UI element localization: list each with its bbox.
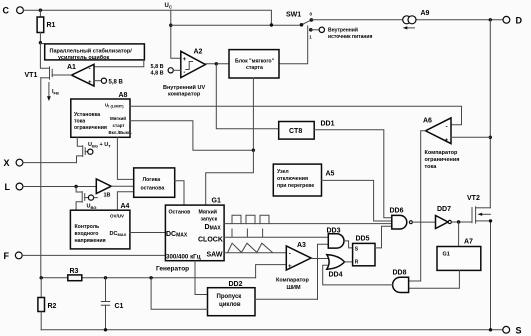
svg-text:5,8 В: 5,8 В (151, 64, 164, 70)
svg-text:DD4: DD4 (329, 272, 343, 279)
svg-text:A6: A6 (423, 118, 432, 125)
box soft start block (229, 50, 279, 78)
svg-text:+: + (183, 57, 187, 63)
wire F to generator G1 (22, 254, 165, 256)
svg-text:D: D (516, 16, 523, 26)
wire DD2/DD3 riser (318, 244, 329, 299)
svg-text:DD2: DD2 (229, 281, 243, 288)
svg-text:тока: тока (74, 119, 85, 125)
op-amp A1 (72, 64, 95, 86)
counter CT8 / DD1 (279, 122, 315, 140)
svg-text:входного: входного (75, 231, 99, 237)
capacitor C1 (105, 278, 107, 302)
inverter DD7 (436, 216, 449, 229)
svg-text:UBG + UT: UBG + UT (88, 142, 111, 149)
svg-text:-: - (446, 124, 448, 130)
svg-text:при перегреве: при перегреве (277, 183, 314, 189)
node junction source bus on S rail (489, 328, 492, 331)
node junction on Uc rail at R1 (39, 9, 42, 12)
svg-text:A5: A5 (326, 171, 335, 178)
svg-text:Логика: Логика (143, 177, 161, 183)
svg-text:1: 1 (309, 35, 312, 40)
node junction VT2 source (489, 219, 492, 222)
svg-text:DD5: DD5 (356, 236, 370, 243)
wire A2 output down to counter CT8 input (216, 64, 278, 129)
gate DD6 (392, 215, 407, 229)
svg-text:компаратор: компаратор (168, 92, 201, 98)
node junction D rail to drain bus (489, 18, 492, 21)
svg-text:+: + (88, 80, 92, 86)
wire A2 output to soft start block (205, 63, 229, 65)
wire node to DD2 lower input (151, 278, 207, 310)
node junction Uc tap to SW1 wire (169, 24, 172, 27)
waveform Dmax square pulses (232, 215, 269, 223)
svg-text:источник питания: источник питания (328, 34, 372, 40)
node junction C1 top (104, 276, 107, 279)
svg-text:старт: старт (113, 123, 126, 128)
wire A1 inverting input to box corner (94, 60, 144, 67)
wire DD8 output to DD4 input 2 (323, 265, 393, 285)
svg-text:A1: A1 (67, 64, 76, 71)
svg-text:G1: G1 (212, 198, 221, 205)
svg-text:Контроль: Контроль (75, 224, 100, 230)
current source A9 (403, 16, 411, 24)
gate DD4 (327, 255, 345, 270)
svg-text:300/400 кГц: 300/400 кГц (166, 254, 201, 261)
svg-text:UBG: UBG (87, 204, 97, 211)
svg-text:F: F (4, 251, 10, 261)
node junction C1 bottom (104, 328, 107, 331)
svg-text:SW1: SW1 (286, 12, 301, 19)
wire A5 output to DD6 input 2 (322, 180, 393, 221)
waveform sawtooth (228, 243, 273, 252)
node junction DD2 branch (149, 276, 152, 279)
gate DD8 (393, 277, 409, 292)
block G1 generator (165, 205, 224, 261)
svg-text:DMAX: DMAX (205, 224, 222, 232)
wire A7 bottom to DD8 input 2 (409, 270, 460, 288)
svg-text:циклов: циклов (219, 302, 241, 308)
wire CT8 output to DD6 input 1 (314, 130, 392, 218)
flip-flop DD5 (353, 243, 375, 265)
svg-text:R: R (355, 260, 359, 266)
reference 5,8 V at A1 + input (94, 80, 101, 82)
svg-text:DCMAX: DCMAX (110, 231, 127, 237)
svg-text:SAW: SAW (207, 252, 223, 259)
svg-text:ШИМ: ШИМ (287, 285, 301, 291)
comparator A3 PWM (286, 246, 311, 270)
transistor Ubg current source on L pin (76, 187, 82, 193)
svg-text:C1: C1 (115, 303, 124, 310)
wire Uc rail from C to SW1 drop (24, 10, 272, 25)
node junction DD7 output (457, 220, 460, 223)
svg-text:останова: останова (141, 186, 165, 192)
svg-text:Компаратор: Компаратор (425, 150, 458, 156)
wire soft start block bottom drop (252, 78, 254, 150)
svg-text:+: + (288, 264, 292, 270)
svg-text:Генератор: Генератор (156, 266, 189, 273)
wire DD6 output to DD7 (412, 221, 435, 223)
resistor R2 (40, 278, 42, 298)
terminal X (16, 159, 23, 166)
svg-text:R2: R2 (48, 303, 57, 310)
svg-text:ограничения: ограничения (425, 157, 460, 163)
svg-text:CT8: CT8 (289, 128, 302, 135)
svg-text:Компаратор: Компаратор (276, 278, 309, 284)
terminal S (503, 326, 510, 333)
wire soft start from A8 to G1 (130, 121, 253, 151)
svg-text:C: C (3, 6, 10, 16)
svg-text:Мягкий: Мягкий (110, 115, 126, 121)
wire stop logic output to G1 (175, 181, 184, 205)
svg-text:Мягкий: Мягкий (199, 209, 217, 216)
wire X to Ubg+Ut transistor (23, 162, 77, 164)
svg-text:A2: A2 (194, 49, 203, 56)
svg-text:-: - (289, 251, 291, 257)
block A5 thermal shutdown (273, 164, 321, 196)
svg-text:Пропуск: Пропуск (217, 294, 242, 300)
wire drain bus from D rail to VT2 (489, 20, 491, 208)
svg-text:1В: 1В (104, 193, 111, 199)
node junction R2 top (40, 276, 43, 279)
wire to SW1 pivot (171, 24, 302, 26)
wire saw from G1 to PWM comparator (224, 252, 286, 254)
wire L to buffer (23, 186, 96, 188)
transistor Ubg+Ut with X pin (77, 137, 82, 146)
svg-text:старта: старта (246, 65, 263, 71)
svg-text:4,8 В: 4,8 В (151, 71, 164, 77)
node junction A6 + input on drain bus (489, 136, 492, 139)
svg-text:DD7: DD7 (437, 206, 451, 213)
switch contact 1 to internal supply (309, 28, 313, 32)
svg-text:DD3: DD3 (327, 228, 341, 235)
wire feedback node to A3 + input (256, 265, 287, 278)
block A7 gate driver (437, 247, 481, 271)
wire Ui limit from A8 to A6 inverting input (130, 106, 462, 124)
wire A3 output to DD4 (311, 258, 328, 260)
svg-text:DD1: DD1 (321, 121, 335, 128)
svg-text:Параллельный стабилизатор/: Параллельный стабилизатор/ (50, 48, 133, 55)
terminal F (15, 252, 22, 259)
node junction on L wire (74, 185, 77, 188)
svg-text:Блок "мягкого": Блок "мягкого" (235, 58, 275, 64)
svg-text:UI (LIMIT): UI (LIMIT) (105, 103, 124, 109)
svg-text:A3: A3 (297, 242, 306, 249)
wire DD7 output down to A7 (458, 222, 460, 247)
resistor R3 (68, 275, 82, 281)
svg-text:-: - (183, 70, 185, 76)
terminal C (17, 7, 24, 14)
wire DD5 output to DD6 input 4 (375, 226, 392, 248)
wire DD4 output to DD5 R (345, 261, 353, 263)
wire DD2 right to riser (255, 298, 318, 300)
svg-text:отключения: отключения (277, 176, 308, 182)
svg-text:A8: A8 (119, 92, 128, 99)
wire A8 enable down to stop logic (117, 137, 133, 179)
svg-text:VT2: VT2 (467, 195, 480, 202)
svg-text:DCMAX: DCMAX (166, 231, 188, 239)
svg-text:усилитель ошибок: усилитель ошибок (58, 54, 109, 61)
wire Dmax from G1 to DD6 (224, 223, 392, 225)
node junction A2 output (215, 62, 218, 65)
terminal L (16, 183, 23, 190)
svg-text:A9: A9 (421, 10, 430, 17)
wire source bus from VT2 to S rail (490, 221, 492, 330)
svg-text:CLOCK: CLOCK (198, 237, 223, 244)
svg-text:напряжения: напряжения (75, 238, 106, 244)
wire Uc tap down to A2 + input (171, 10, 181, 58)
comparator A2 internal UV (181, 51, 206, 77)
svg-text:Внутренний UV: Внутренний UV (163, 84, 205, 91)
svg-text:A7: A7 (464, 239, 473, 246)
svg-text:UC: UC (165, 3, 173, 9)
terminal D (503, 16, 510, 23)
node junction soft start net (252, 149, 255, 152)
svg-text:G1: G1 (443, 252, 450, 258)
node junction at x=271 (270, 23, 273, 26)
svg-text:Останов: Останов (169, 210, 191, 216)
block A8 current limit set (71, 99, 130, 137)
svg-text:L: L (5, 182, 11, 192)
wire D rail (311, 19, 503, 21)
svg-text:5,8 В: 5,8 В (109, 79, 124, 85)
node junction at VT1 drain / stabilizer box (39, 41, 42, 44)
gate DD3 (328, 234, 344, 248)
svg-text:R3: R3 (70, 268, 79, 275)
wire contact 1 down to soft start feed (279, 26, 308, 64)
wire A6 output down to DD8 input 1 (409, 131, 426, 281)
box parallel stabilizer / error amplifier (45, 44, 145, 60)
wire DD7 output to VT2 gate (451, 221, 472, 223)
wire feedback line with R3 (41, 277, 255, 279)
buffer comparator 1V on L pin (96, 179, 111, 194)
block A4 input voltage monitor (70, 210, 129, 249)
svg-text:IFB: IFB (52, 89, 59, 96)
svg-text:VT1: VT1 (25, 72, 38, 79)
resistor R1 (39, 10, 41, 17)
svg-text:Вкл./Выкл.: Вкл./Выкл. (109, 130, 132, 135)
wire DD3 output to DD5 S (345, 241, 353, 248)
svg-text:Установка: Установка (74, 112, 100, 118)
wire A4 DCmax to G1 (130, 232, 166, 234)
current IFB arrow (48, 83, 50, 97)
svg-text:-: - (89, 67, 91, 73)
comparator A6 current limit (426, 118, 452, 144)
wire VT1 source down left column (40, 78, 42, 278)
svg-text:+: + (445, 138, 449, 144)
svg-text:Внутренний: Внутренний (328, 27, 358, 34)
box stop logic (134, 168, 175, 197)
waveform clock pulses (232, 229, 263, 237)
wire G1 bottom to DD2 (195, 261, 208, 295)
wire bottom S rail (41, 329, 503, 331)
wire clock from G1 to DD3 (224, 236, 328, 238)
wire A4 OV/UV up to stop logic (117, 192, 133, 210)
svg-text:OV/UV: OV/UV (110, 214, 124, 219)
svg-text:DD6: DD6 (390, 208, 404, 215)
block DD2 cycle skip (208, 288, 256, 316)
svg-text:DD8: DD8 (393, 270, 407, 277)
svg-text:0: 0 (310, 12, 313, 17)
svg-text:Узел: Узел (277, 169, 289, 175)
wire soft start net down to G1 input (206, 150, 254, 205)
svg-text:тока: тока (425, 164, 438, 170)
svg-text:X: X (4, 158, 10, 168)
svg-text:A4: A4 (121, 203, 130, 210)
svg-text:запуск: запуск (201, 217, 218, 223)
svg-text:ограничения: ограничения (74, 125, 107, 131)
svg-text:S: S (516, 326, 522, 336)
svg-text:R1: R1 (47, 22, 56, 29)
